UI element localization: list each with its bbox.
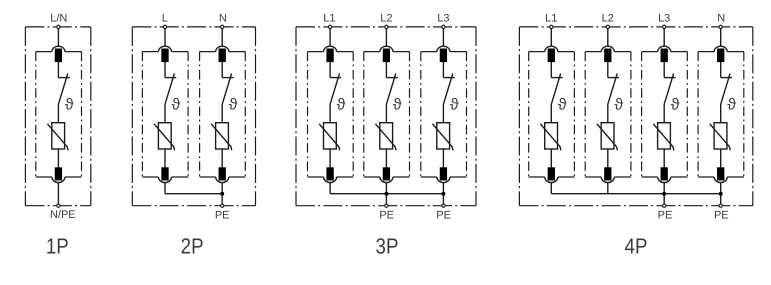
- module M2a enclosure (plug-in SPD cartridge, dashed box): [142, 52, 188, 177]
- wire: top contact to thermal disconnector M4d: [720, 62, 722, 78]
- wire: varistor to bottom contact M4c: [663, 149, 665, 167]
- wire: terminal to top contact M3a: [329, 29, 331, 46]
- module M3c enclosure (plug-in SPD cartridge, dashed box): [421, 52, 467, 177]
- terminal node L/N (1P top): [57, 25, 60, 28]
- terminal node L1 (4P): [550, 25, 553, 28]
- terminal node PE2 (3P): [442, 204, 445, 207]
- top plug-in contact M3a (blade + socket arc): [324, 46, 337, 62]
- svg-text:L2: L2: [380, 13, 392, 25]
- module M1 enclosure (plug-in SPD cartridge, dashed box): [36, 52, 82, 177]
- top plug-in contact M3b (blade + socket arc): [380, 46, 393, 62]
- svg-text:N/PE: N/PE: [50, 209, 76, 221]
- terminal node PE2 (4P): [719, 204, 722, 207]
- terminal node PE (2P): [221, 204, 224, 207]
- 1P outer enclosure (dash-dot border): [25, 27, 90, 206]
- bottom plug-in contact M2b (blade + socket arc): [216, 167, 229, 182]
- wire: top contact to thermal disconnector M3a: [329, 62, 331, 78]
- thermal disconnector switch M2a: [165, 74, 176, 104]
- wire: top contact to thermal disconnector M3c: [442, 62, 444, 78]
- module M3a enclosure (plug-in SPD cartridge, dashed box): [308, 52, 354, 177]
- wire: disconnector to varistor M2b: [221, 104, 223, 123]
- bottom plug-in contact M4d (blade + socket arc): [714, 167, 727, 182]
- thermal disconnector switch M3c: [443, 74, 454, 104]
- bottom plug-in contact M2a (blade + socket arc): [159, 167, 172, 182]
- svg-text:ϑ: ϑ: [450, 97, 459, 114]
- wire: varistor to bottom contact M3b: [385, 149, 387, 167]
- svg-text:PE: PE: [436, 209, 451, 221]
- svg-text:ϑ: ϑ: [65, 97, 74, 114]
- svg-text:ϑ: ϑ: [337, 97, 346, 114]
- svg-text:ϑ: ϑ: [558, 97, 567, 114]
- wire: top contact to thermal disconnector M1: [57, 62, 59, 78]
- svg-text:L1: L1: [545, 13, 557, 25]
- module M4c enclosure (plug-in SPD cartridge, dashed box): [642, 52, 688, 177]
- wire: varistor to bottom contact M1: [57, 149, 59, 167]
- wire: bottom contact drop M4a: [550, 183, 552, 194]
- svg-text:PE: PE: [714, 209, 729, 221]
- terminal node L2 (4P): [606, 25, 609, 28]
- terminal node L3 (4P): [663, 25, 666, 28]
- bottom plug-in contact M4c (blade + socket arc): [658, 167, 671, 182]
- svg-text:ϑ: ϑ: [172, 97, 181, 114]
- svg-text:L1: L1: [323, 13, 335, 25]
- wire: terminal to top contact M1: [57, 29, 59, 46]
- top plug-in contact M4c (blade + socket arc): [658, 46, 671, 62]
- top plug-in contact M3c (blade + socket arc): [437, 46, 450, 62]
- bottom plug-in contact M3a (blade + socket arc): [324, 167, 337, 182]
- svg-text:N: N: [219, 13, 227, 25]
- wire: disconnector to varistor M4a: [550, 104, 552, 123]
- wire: disconnector to varistor M3c: [442, 104, 444, 123]
- varistor (MOV) M1: [47, 123, 68, 151]
- wire: terminal to top contact M3c: [442, 29, 444, 46]
- thermal disconnector switch M1: [58, 74, 69, 104]
- terminal node N/PE (1P bottom): [57, 204, 60, 207]
- terminal node N (4P): [719, 25, 722, 28]
- wire: bottom contact drop M3b: [385, 183, 387, 204]
- terminal node L (2P): [163, 25, 166, 28]
- top plug-in contact M1 (blade + socket arc): [52, 46, 65, 62]
- wire: terminal to top contact M4a: [550, 29, 552, 46]
- wire: bottom contact drop M3a: [329, 183, 331, 194]
- thermal disconnector switch M4c: [664, 74, 675, 104]
- wire: PE bus 4P: [551, 193, 720, 195]
- wire: disconnector to varistor M3a: [329, 104, 331, 123]
- varistor (MOV) M2a: [154, 123, 175, 151]
- junction 4P PE bus node 1: [662, 192, 666, 196]
- svg-text:3P: 3P: [376, 233, 399, 258]
- wire: terminal to top contact M2b: [221, 29, 223, 46]
- top plug-in contact M4d (blade + socket arc): [714, 46, 727, 62]
- svg-text:ϑ: ϑ: [727, 97, 736, 114]
- svg-text:2P: 2P: [181, 233, 204, 258]
- wire: varistor to bottom contact M3a: [329, 149, 331, 167]
- svg-text:L2: L2: [602, 13, 614, 25]
- thermal disconnector switch M4a: [551, 74, 562, 104]
- 3P outer enclosure (dash-dot border): [296, 27, 476, 206]
- wire: top contact to thermal disconnector M2b: [221, 62, 223, 78]
- wire: bottom contact drop M3c: [442, 183, 444, 204]
- bottom plug-in contact M1 (blade + socket arc): [52, 167, 65, 182]
- svg-text:PE: PE: [379, 209, 394, 221]
- junction 3P PE bus node 1: [384, 192, 388, 196]
- wire: terminal to top contact M4d: [720, 29, 722, 46]
- terminal node N (2P): [221, 25, 224, 28]
- thermal disconnector switch M3a: [330, 74, 341, 104]
- terminal node L3 (3P): [442, 25, 445, 28]
- terminal node PE1 (3P): [385, 204, 388, 207]
- svg-text:L3: L3: [437, 13, 449, 25]
- svg-text:N: N: [717, 13, 725, 25]
- 2P outer enclosure (dash-dot border): [132, 27, 255, 206]
- wire: terminal to top contact M3b: [385, 29, 387, 46]
- wire: varistor to bottom contact M4d: [720, 149, 722, 167]
- svg-text:ϑ: ϑ: [614, 97, 623, 114]
- top plug-in contact M4a (blade + socket arc): [545, 46, 558, 62]
- module M4d enclosure (plug-in SPD cartridge, dashed box): [698, 52, 744, 177]
- thermal disconnector switch M2b: [222, 74, 233, 104]
- wire: varistor to bottom contact M3c: [442, 149, 444, 167]
- module M4a enclosure (plug-in SPD cartridge, dashed box): [529, 52, 575, 177]
- wire: terminal to top contact M2a: [164, 29, 166, 46]
- wire: bottom contact drop M1: [57, 183, 59, 204]
- module M2b enclosure (plug-in SPD cartridge, dashed box): [200, 52, 246, 177]
- varistor (MOV) M2b: [211, 123, 232, 151]
- varistor (MOV) M4a: [540, 123, 561, 151]
- top plug-in contact M4b (blade + socket arc): [601, 46, 614, 62]
- varistor (MOV) M3a: [319, 123, 340, 151]
- wire: disconnector to varistor M3b: [385, 104, 387, 123]
- top plug-in contact M2a (blade + socket arc): [159, 46, 172, 62]
- wire: disconnector to varistor M4b: [607, 104, 609, 123]
- svg-text:4P: 4P: [625, 233, 648, 258]
- thermal disconnector switch M4b: [608, 74, 619, 104]
- wire: disconnector to varistor M4d: [720, 104, 722, 123]
- terminal node L2 (3P): [385, 25, 388, 28]
- wire: top contact to thermal disconnector M4a: [550, 62, 552, 78]
- wire: PE bus 3P: [330, 193, 443, 195]
- varistor (MOV) M4d: [710, 123, 731, 151]
- terminal node PE1 (4P): [663, 204, 666, 207]
- svg-text:1P: 1P: [46, 233, 69, 258]
- junction 2P PE bus node: [220, 192, 224, 196]
- wire: varistor to bottom contact M2b: [221, 149, 223, 167]
- wire: terminal to top contact M4b: [607, 29, 609, 46]
- thermal disconnector switch M4d: [721, 74, 732, 104]
- thermal disconnector switch M3b: [386, 74, 397, 104]
- wire: bottom contact drop M4b: [607, 183, 609, 194]
- wire: disconnector to varistor M1: [57, 104, 59, 123]
- module M3b enclosure (plug-in SPD cartridge, dashed box): [364, 52, 410, 177]
- wire: bottom contact drop M4c: [663, 183, 665, 204]
- top plug-in contact M2b (blade + socket arc): [216, 46, 229, 62]
- wire: varistor to bottom contact M4a: [550, 149, 552, 167]
- varistor (MOV) M4b: [597, 123, 618, 151]
- svg-text:L3: L3: [658, 13, 670, 25]
- 4P outer enclosure (dash-dot border): [519, 27, 752, 206]
- wire: top contact to thermal disconnector M4b: [607, 62, 609, 78]
- junction 3P PE bus node 2: [441, 192, 445, 196]
- terminal node L1 (3P): [328, 25, 331, 28]
- junction 4P PE bus node 2: [719, 192, 723, 196]
- wire: varistor to bottom contact M2a: [164, 149, 166, 167]
- svg-text:PE: PE: [215, 209, 230, 221]
- bottom plug-in contact M4b (blade + socket arc): [601, 167, 614, 182]
- svg-text:L: L: [162, 13, 168, 25]
- wire: bottom contact drop M2b: [221, 183, 223, 204]
- svg-text:ϑ: ϑ: [671, 97, 680, 114]
- varistor (MOV) M4c: [653, 123, 674, 151]
- wire: varistor to bottom contact M4b: [607, 149, 609, 167]
- wire: top contact to thermal disconnector M4c: [663, 62, 665, 78]
- bottom plug-in contact M4a (blade + socket arc): [545, 167, 558, 182]
- svg-text:ϑ: ϑ: [229, 97, 238, 114]
- svg-text:PE: PE: [658, 209, 673, 221]
- bottom plug-in contact M3c (blade + socket arc): [437, 167, 450, 182]
- svg-text:L/N: L/N: [50, 13, 67, 25]
- svg-text:ϑ: ϑ: [393, 97, 402, 114]
- wire: PE bus 2P: [165, 193, 222, 195]
- bottom plug-in contact M3b (blade + socket arc): [380, 167, 393, 182]
- wire: disconnector to varistor M4c: [663, 104, 665, 123]
- wire: bottom contact drop M2a: [164, 183, 166, 194]
- wire: terminal to top contact M4c: [663, 29, 665, 46]
- wire: disconnector to varistor M2a: [164, 104, 166, 123]
- wire: bottom contact drop M4d: [720, 183, 722, 204]
- varistor (MOV) M3c: [432, 123, 453, 151]
- module M4b enclosure (plug-in SPD cartridge, dashed box): [585, 52, 631, 177]
- varistor (MOV) M3b: [375, 123, 396, 151]
- wire: top contact to thermal disconnector M3b: [385, 62, 387, 78]
- wire: top contact to thermal disconnector M2a: [164, 62, 166, 78]
